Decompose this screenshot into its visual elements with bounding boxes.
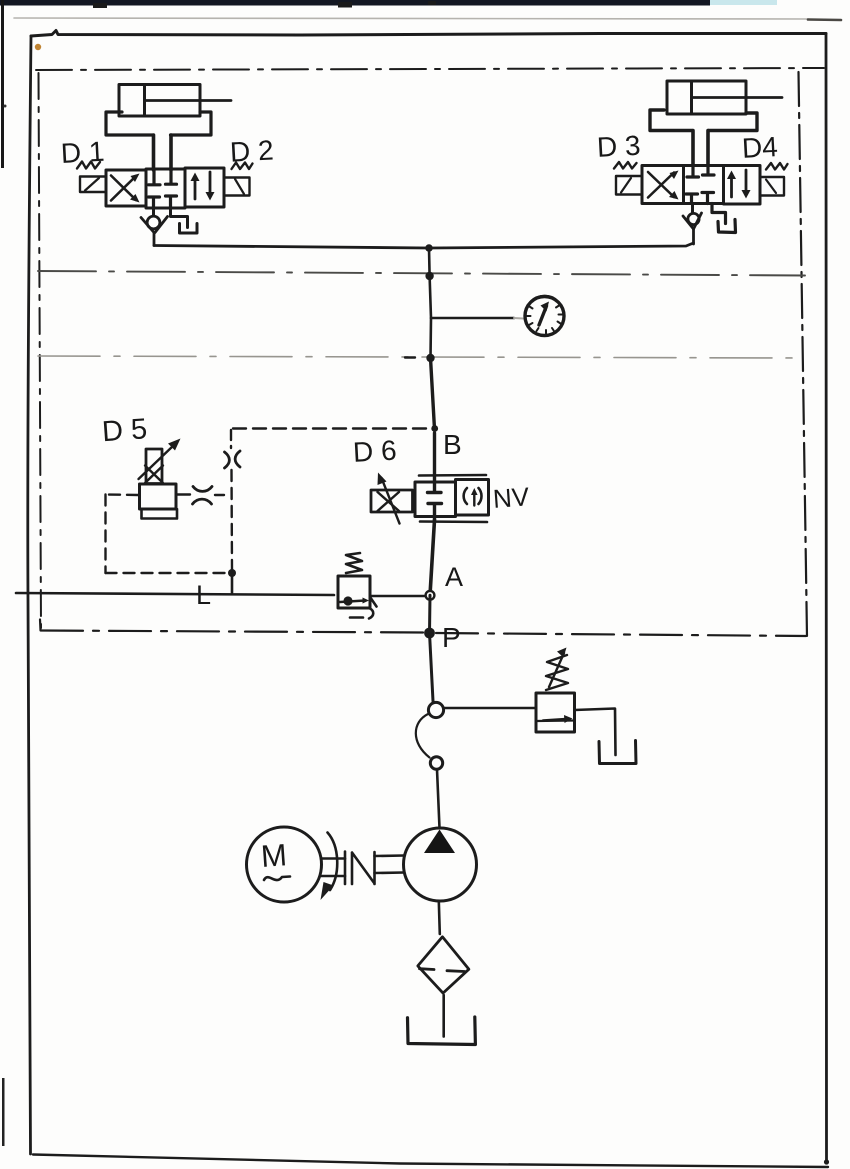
- valve D3/D4 left box (crossed arrows): [642, 166, 684, 204]
- electric motor circle: [247, 827, 322, 902]
- node: junction on manifold: [425, 244, 433, 252]
- wire: D5 drain drop: [231, 573, 234, 593]
- svg-text:M: M: [260, 837, 288, 874]
- wire cylinder1 port A stem: [152, 135, 156, 170]
- drain line and tank under valve D3/D4: [712, 204, 736, 233]
- drain line and tank under valve D1/D2: [171, 208, 198, 233]
- wire: main vertical to node B: [431, 358, 435, 429]
- wire: coupling to pump: [437, 770, 440, 829]
- wire cylinder2 port A stem: [691, 131, 695, 167]
- tank at relief valve: [599, 741, 636, 764]
- svg-text:P: P: [442, 622, 461, 653]
- border frame: left edge: [28, 36, 31, 1154]
- solenoid D4: [760, 177, 784, 196]
- svg-text:D 3: D 3: [596, 130, 641, 163]
- LS valve dashed pilot hook: [350, 609, 373, 619]
- pressure gauge: [525, 296, 564, 336]
- check valve under valve D3/D4: [683, 204, 702, 245]
- cylinder 1 piston: [143, 85, 146, 117]
- svg-text:B: B: [443, 429, 462, 460]
- svg-text:D 6: D 6: [352, 435, 397, 468]
- wire: gauge branch: [431, 317, 514, 320]
- svg-text:A: A: [445, 562, 463, 592]
- cylinder 1 body: [119, 85, 200, 117]
- dashed pilot line from D5 to node B: [233, 427, 426, 429]
- scan artifact: left edge dark strip bottom: [2, 1078, 5, 1146]
- filter diamond: [418, 937, 469, 993]
- node B: [431, 425, 438, 432]
- wire: filter to tank: [442, 995, 445, 1037]
- wire: node P down to coupling: [430, 633, 434, 701]
- cylinder 2 port bracket: [650, 110, 757, 131]
- LS valve internal ball and arrow: [340, 596, 377, 606]
- scan artifact: left edge dark strip top: [1, 0, 4, 168]
- wire: main vertical upper: [429, 248, 431, 358]
- node: junction at dash line 2: [426, 354, 434, 362]
- scan artifact: small speck left: [4, 105, 7, 108]
- valve D6 envelope lines: [419, 475, 487, 522]
- LS valve body: [338, 576, 370, 608]
- valve D6 main box (blocked ports): [415, 433, 456, 520]
- node: junction at dash line 1: [425, 272, 433, 280]
- valve D6 throttle arrow: [378, 473, 400, 524]
- pump circle: [404, 828, 477, 901]
- solenoid D2: [224, 178, 250, 196]
- solenoid D3: [616, 176, 642, 195]
- spring D1: [77, 162, 100, 169]
- wire: long horizontal manifold line: [154, 243, 694, 248]
- border frame: right edge: [825, 34, 828, 1164]
- pump triangle: [424, 830, 455, 854]
- scan artifact: dark marks under top bar: [93, 1, 436, 8]
- LS valve spring: [346, 553, 362, 573]
- wire: branch to relief valve: [444, 707, 536, 710]
- cylinder 2 piston: [690, 81, 693, 114]
- relief valve spring: [546, 648, 568, 691]
- coupling circle upper: [428, 702, 443, 717]
- dashed pilot box left/bottom of D5: [106, 495, 229, 574]
- svg-text:D 5: D 5: [101, 413, 148, 448]
- valve D5 adjustment arrow: [139, 439, 181, 480]
- dash-dot separator line upper: [38, 271, 805, 276]
- filter element dashes: [420, 969, 465, 972]
- dash-dot frame: bottom line: [41, 631, 806, 637]
- wire: node A to node P: [428, 595, 432, 633]
- cylinder 2 rod: [692, 96, 783, 99]
- dash-dot frame: right line: [799, 72, 808, 637]
- valve D6 check/orifice box: [456, 480, 489, 516]
- solenoid D1: [80, 177, 106, 193]
- motor rotation arrow: [321, 833, 338, 901]
- coupling hose arc: [416, 714, 430, 758]
- wire: horizontal line through LS valve: [16, 593, 334, 595]
- shaft coupling: [321, 852, 404, 885]
- valve D1/D2 right box (parallel arrows): [185, 168, 224, 207]
- valve D3/D4 center box (blocked ports): [684, 166, 724, 204]
- svg-text:D4: D4: [741, 131, 778, 164]
- cylinder 1 rod: [145, 99, 232, 102]
- main tank: [408, 1017, 476, 1045]
- svg-text:D 2: D 2: [229, 135, 274, 168]
- dash-dot frame: left line: [39, 73, 42, 628]
- svg-text:D 1: D 1: [60, 136, 105, 169]
- spring D2: [232, 163, 253, 170]
- valve D1/D2 left box (crossed arrows): [106, 170, 146, 206]
- dash-dot separator line lower (faint): [38, 356, 800, 358]
- motor AC tilde: [264, 877, 290, 881]
- scan artifact: orange dot top-left: [35, 44, 41, 50]
- relief valve body: [536, 693, 575, 732]
- spring D3: [614, 162, 637, 169]
- wire cylinder2 port B stem: [706, 131, 710, 167]
- scan artifact: top black bar: [0, 0, 777, 6]
- valve D3/D4 right box (parallel arrows): [724, 166, 761, 205]
- node: D5 drain junction: [228, 569, 236, 577]
- spring D4: [766, 163, 788, 170]
- dash-dot frame: top line: [36, 68, 824, 70]
- border frame: top edge: [31, 31, 826, 37]
- valve D5 body: [140, 484, 177, 509]
- valve D6 throttle box: [371, 490, 413, 512]
- coupling circle lower: [430, 757, 442, 769]
- valve D5 pilot element: [145, 449, 163, 484]
- wire: relief valve to tank: [575, 709, 616, 756]
- border frame: right bottom blob: [824, 1159, 829, 1164]
- svg-text:NV: NV: [492, 481, 531, 513]
- node P: [424, 628, 435, 639]
- valve D5 pilot line with orifice: [176, 487, 228, 505]
- scan artifact: gray top line: [14, 18, 841, 20]
- check valve under valve D1/D2: [141, 208, 168, 246]
- cylinder 2 body: [667, 81, 746, 114]
- wire: pump suction: [439, 901, 440, 934]
- node A: [426, 591, 435, 600]
- wire cylinder1 port B stem: [169, 135, 173, 170]
- valve D1/D2 center box (blocked ports): [146, 169, 185, 208]
- wire: main vertical valve D6 to node A: [430, 520, 435, 595]
- cylinder 1 port bracket: [106, 112, 211, 135]
- dashed vertical pilot line with orifice right of D5: [225, 430, 241, 570]
- border frame: bottom edge: [33, 1155, 828, 1168]
- valve D5 bottom plate: [142, 509, 178, 519]
